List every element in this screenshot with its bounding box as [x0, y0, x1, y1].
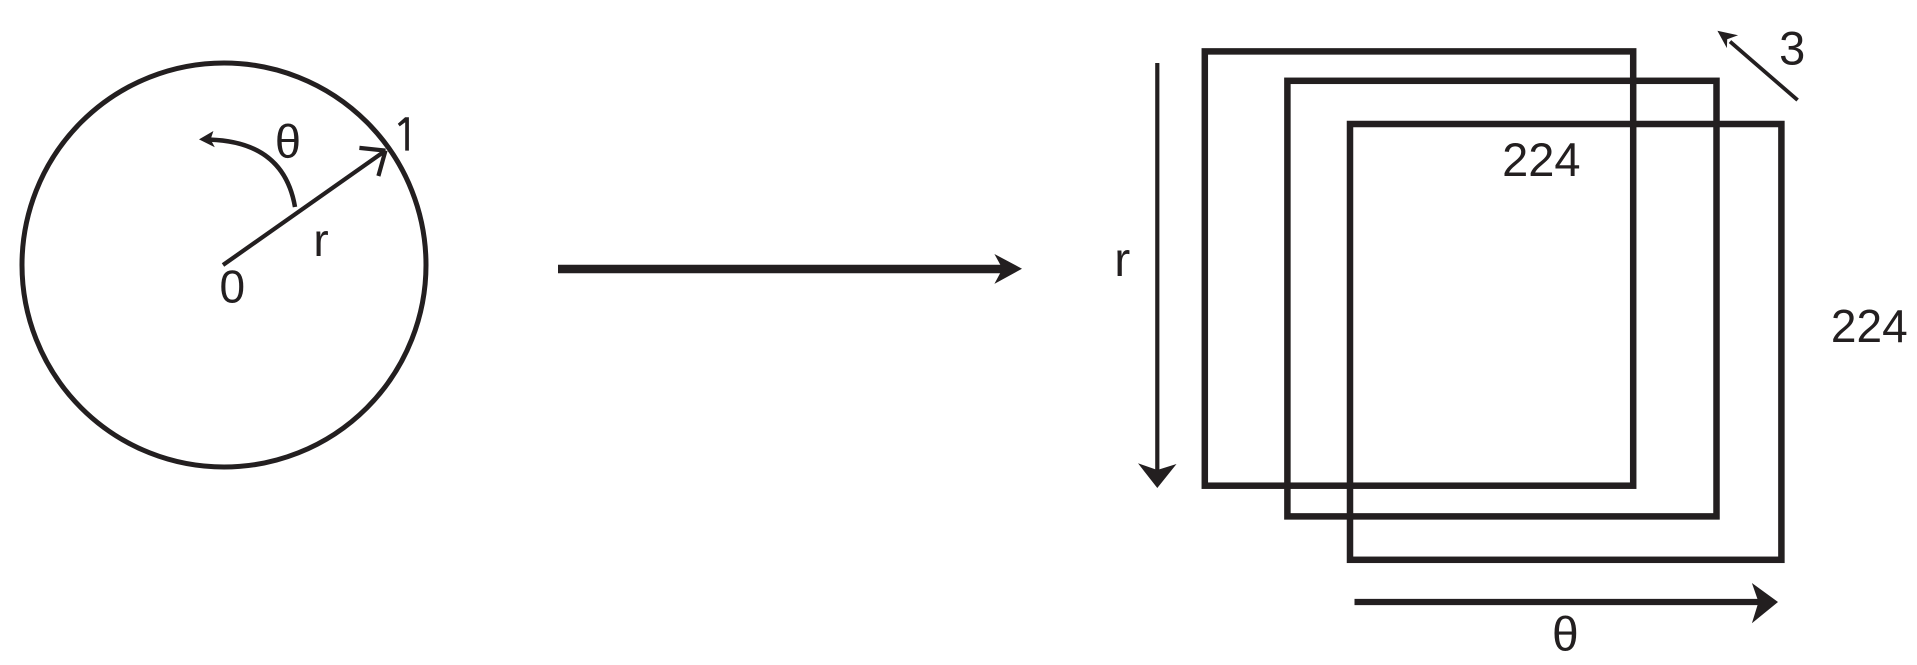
radius arrow shaft: [223, 151, 386, 265]
svg-text:r: r: [1114, 234, 1130, 287]
big transform arrow head: [994, 254, 1022, 284]
back rectangle (channel 1): [1205, 51, 1633, 485]
depth arrow shaft (diagonal): [1730, 42, 1798, 101]
svg-text:θ: θ: [275, 115, 301, 168]
svg-text:224: 224: [1831, 300, 1908, 352]
front rectangle (channel 3): [1350, 124, 1781, 560]
label 1: [398, 117, 409, 150]
theta axis arrow shaft (horizontal): [1355, 599, 1761, 605]
svg-text:r: r: [313, 214, 328, 266]
theta axis arrow head: [1752, 583, 1778, 623]
svg-text:θ: θ: [1552, 608, 1579, 661]
middle rectangle (channel 2): [1287, 81, 1716, 517]
svg-text:3: 3: [1779, 22, 1805, 75]
svg-text:224: 224: [1502, 133, 1580, 186]
svg-text:0: 0: [220, 261, 246, 313]
theta arc: [210, 140, 295, 207]
radius arrow stick head: [359, 148, 385, 176]
r axis arrow head: [1138, 463, 1177, 488]
big transform arrow shaft: [558, 265, 1003, 274]
depth arrow head: [1717, 31, 1738, 48]
theta arc arrowhead: [199, 131, 215, 147]
circle (polar image domain): [22, 63, 426, 467]
r axis arrow shaft (vertical): [1155, 63, 1159, 470]
